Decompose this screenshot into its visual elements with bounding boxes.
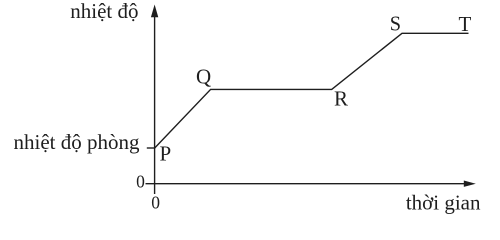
svg-text:nhiệt độ: nhiệt độ [70,0,138,23]
svg-text:0: 0 [151,192,160,212]
svg-text:P: P [160,142,172,166]
x-axis arrowhead [464,181,476,187]
svg-text:R: R [334,86,348,110]
heating curve P-Q-R-S-T [155,33,469,148]
y-axis arrowhead [151,5,158,18]
svg-text:nhiệt độ phòng: nhiệt độ phòng [14,130,140,154]
svg-text:0: 0 [136,171,145,191]
svg-text:thời gian: thời gian [406,191,481,215]
room temperature tick on y-axis [147,147,156,149]
svg-text:Q: Q [196,65,211,89]
y-axis [154,15,156,194]
x-axis [146,183,467,185]
svg-text:S: S [390,12,401,36]
svg-text:T: T [459,12,472,36]
